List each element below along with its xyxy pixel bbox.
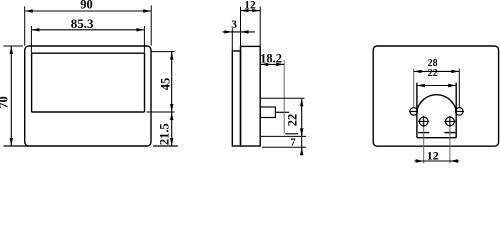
- svg-text:85.3: 85.3: [71, 16, 94, 31]
- svg-text:12: 12: [427, 148, 439, 162]
- svg-text:45: 45: [159, 78, 173, 91]
- svg-text:90: 90: [80, 0, 93, 12]
- svg-text:22: 22: [428, 68, 438, 79]
- svg-text:21.5: 21.5: [158, 123, 172, 145]
- svg-text:22: 22: [285, 114, 299, 127]
- svg-text:18.2: 18.2: [260, 52, 282, 66]
- svg-text:3: 3: [231, 19, 237, 31]
- svg-text:70: 70: [0, 96, 11, 109]
- svg-text:12: 12: [244, 0, 256, 11]
